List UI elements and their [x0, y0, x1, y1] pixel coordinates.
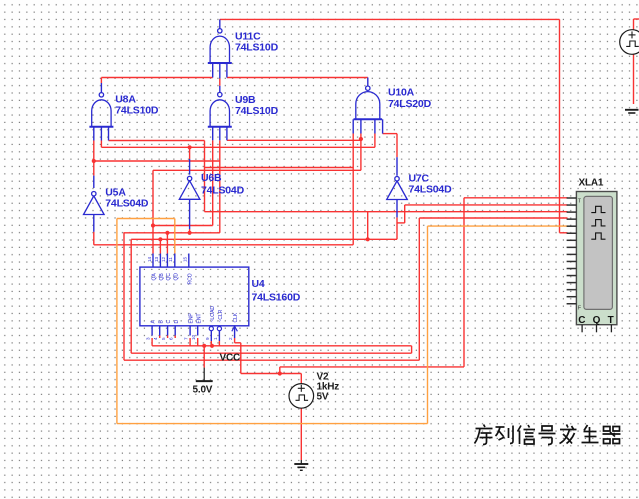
svg-text:VCC: VCC: [220, 353, 241, 364]
svg-text:5.0V: 5.0V: [193, 385, 213, 396]
svg-text:15: 15: [182, 256, 187, 262]
svg-text:QC: QC: [166, 273, 172, 281]
svg-text:T: T: [608, 315, 614, 326]
svg-text:3: 3: [146, 337, 151, 340]
svg-text:CLK: CLK: [233, 312, 239, 322]
svg-text:QA: QA: [152, 273, 158, 281]
svg-text:D: D: [174, 320, 180, 324]
svg-text:U10A: U10A: [388, 87, 415, 99]
svg-text:13: 13: [154, 256, 159, 262]
svg-text:74LS20D: 74LS20D: [388, 98, 432, 110]
svg-text:1: 1: [213, 337, 218, 340]
svg-text:C: C: [578, 315, 585, 326]
svg-text:4: 4: [153, 337, 158, 340]
svg-text:6: 6: [169, 337, 174, 340]
svg-text:ENP: ENP: [189, 313, 195, 324]
svg-text:2: 2: [228, 337, 233, 340]
svg-text:11: 11: [168, 257, 173, 262]
svg-text:9: 9: [205, 337, 210, 340]
svg-text:5: 5: [161, 337, 166, 340]
svg-text:74LS04D: 74LS04D: [105, 197, 149, 209]
svg-text:U4: U4: [252, 278, 265, 290]
svg-text:74LS04D: 74LS04D: [201, 185, 245, 197]
svg-text:QB: QB: [159, 273, 165, 281]
svg-text:RCO: RCO: [187, 273, 193, 284]
svg-text:74LS04D: 74LS04D: [409, 184, 453, 196]
svg-text:Q: Q: [593, 315, 601, 326]
svg-text:5V: 5V: [317, 391, 329, 402]
svg-text:U6B: U6B: [201, 172, 222, 184]
svg-text:ENT: ENT: [196, 314, 202, 324]
svg-text:14: 14: [147, 256, 152, 262]
svg-text:XLA1: XLA1: [579, 178, 604, 189]
svg-text:~LOAD: ~LOAD: [210, 306, 216, 323]
svg-text:74LS160D: 74LS160D: [252, 292, 301, 304]
svg-text:12: 12: [161, 256, 166, 262]
svg-text:7: 7: [184, 337, 189, 340]
svg-text:QD: QD: [173, 273, 179, 281]
svg-text:74LS10D: 74LS10D: [235, 42, 279, 54]
svg-text:74LS10D: 74LS10D: [115, 105, 159, 117]
svg-text:C: C: [166, 320, 172, 324]
svg-text:~CLR: ~CLR: [218, 309, 224, 322]
svg-text:10: 10: [191, 334, 196, 340]
svg-text:74LS10D: 74LS10D: [235, 105, 279, 117]
